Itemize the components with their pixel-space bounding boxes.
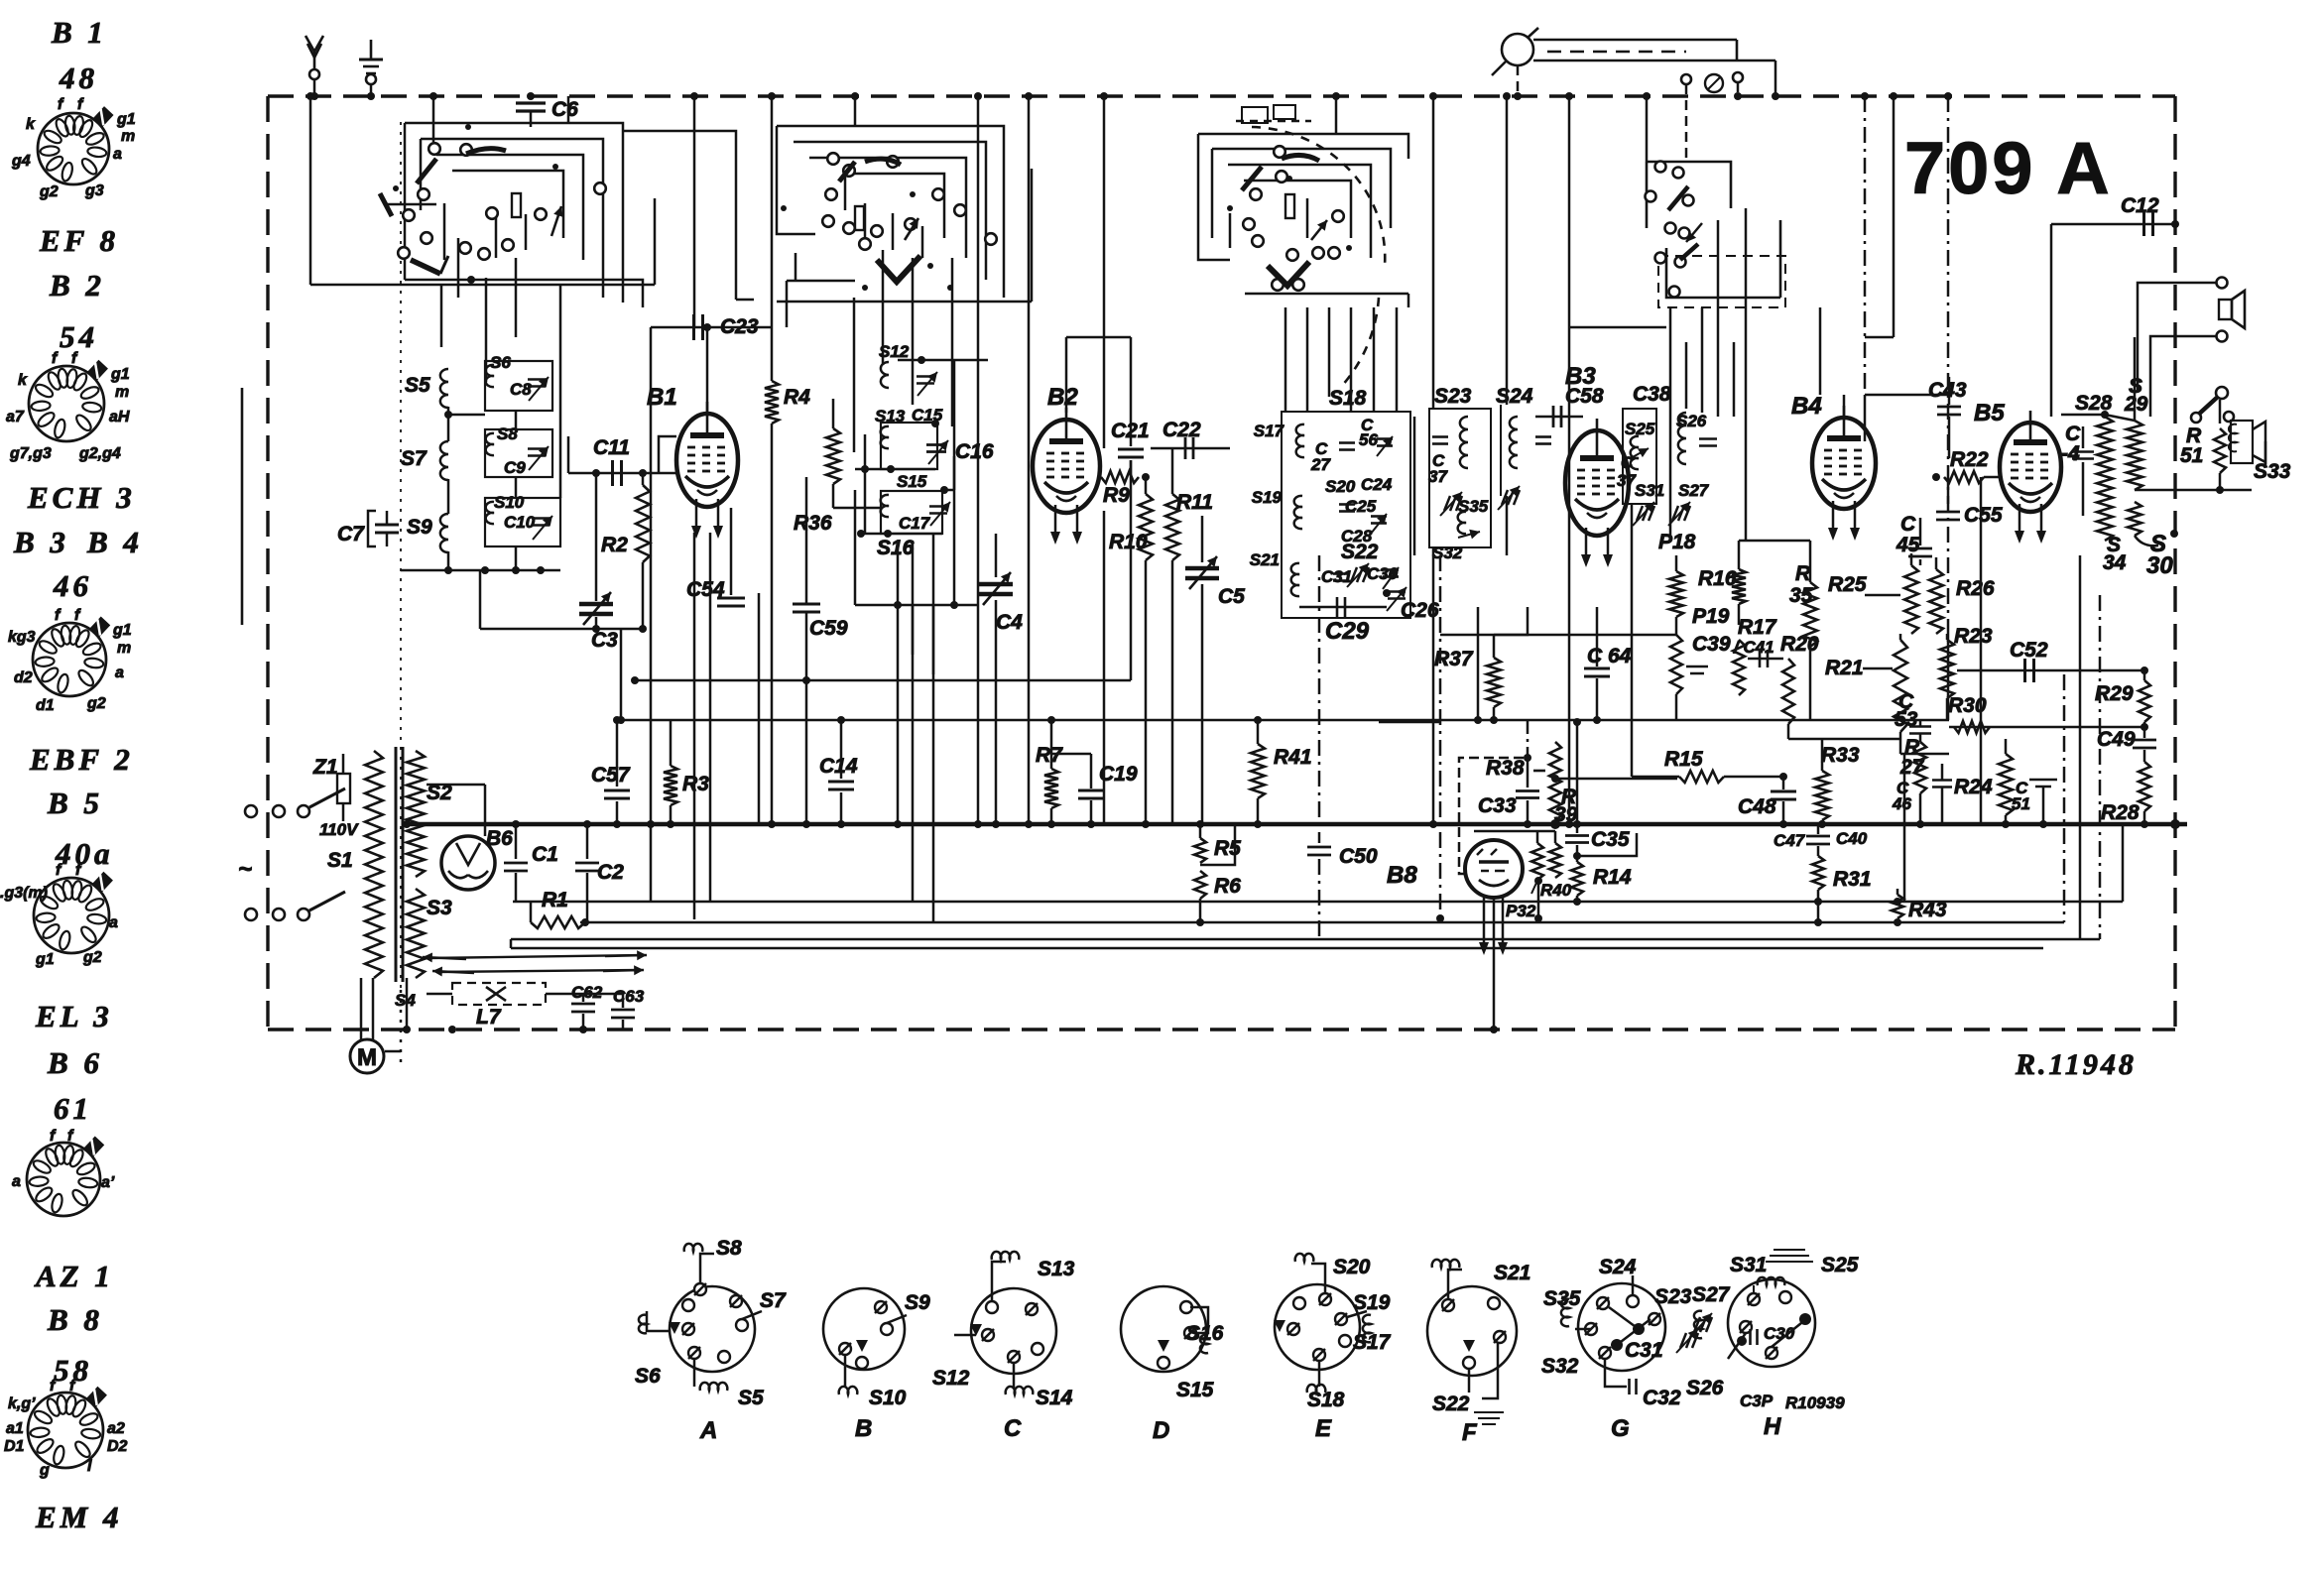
resistor R39 — [1549, 742, 1561, 821]
svg-text:g3: g3 — [84, 182, 104, 199]
svg-text:R1: R1 — [542, 889, 568, 911]
svg-text:EM 4: EM 4 — [35, 1500, 123, 1534]
socket detail C — [971, 1288, 1056, 1374]
capacitor C2 — [586, 824, 589, 859]
antenna — [313, 52, 316, 70]
svg-text:B 1: B 1 — [51, 15, 107, 50]
wave switch unit 1 — [432, 96, 435, 142]
svg-text:S6: S6 — [635, 1365, 661, 1388]
svg-text:C2: C2 — [597, 861, 624, 884]
svg-text:S23: S23 — [1434, 385, 1472, 408]
socket detail F — [1427, 1286, 1517, 1376]
capacitor C11 — [611, 460, 614, 486]
socket detail A — [670, 1286, 755, 1372]
svg-text:aH: aH — [109, 409, 130, 425]
svg-text:m: m — [117, 640, 131, 657]
long wires 947/956 — [511, 938, 2100, 941]
svg-text:C62: C62 — [571, 983, 603, 1002]
svg-text:~: ~ — [238, 856, 252, 883]
svg-text:C10: C10 — [504, 513, 536, 532]
svg-text:C54: C54 — [686, 578, 725, 601]
misc verticals — [897, 635, 900, 824]
svg-text:C24: C24 — [1361, 475, 1393, 494]
capacitor C21 — [1130, 417, 1133, 446]
resistor R26v — [1929, 569, 1943, 634]
coil S10 with C10 — [485, 498, 560, 546]
svg-text:A: A — [699, 1417, 717, 1444]
svg-text:m: m — [115, 384, 129, 401]
svg-text:S16: S16 — [877, 537, 915, 559]
coil S25 — [1623, 409, 1656, 504]
svg-text:C5: C5 — [1218, 585, 1245, 608]
svg-text:D1: D1 — [4, 1438, 25, 1455]
socket detail G — [1578, 1283, 1665, 1371]
HT bus — [407, 822, 2187, 827]
svg-text:C6: C6 — [551, 98, 578, 121]
svg-text:S32: S32 — [1541, 1355, 1579, 1378]
resistor R41 — [1257, 720, 1260, 744]
long wire 930 — [580, 921, 2064, 924]
socket B8 — [28, 1393, 103, 1468]
coil S13 C15 — [881, 423, 937, 469]
extra interconnect density — [635, 679, 1131, 682]
svg-text:R38: R38 — [1486, 757, 1525, 780]
svg-text:B6: B6 — [486, 827, 513, 850]
svg-text:S25: S25 — [1625, 420, 1655, 438]
svg-text:B: B — [855, 1415, 872, 1442]
svg-text:S18: S18 — [1307, 1389, 1345, 1411]
svg-text:R: R — [1795, 562, 1811, 585]
svg-text:C: C — [1004, 1415, 1022, 1442]
svg-text:P32: P32 — [1506, 902, 1536, 920]
svg-text:110V: 110V — [319, 820, 359, 839]
svg-text:d1: d1 — [36, 697, 55, 714]
svg-text:C21: C21 — [1111, 420, 1150, 442]
dial drive — [1502, 34, 1533, 65]
heptode B2 — [1033, 420, 1100, 513]
coil S5 — [440, 369, 448, 408]
variable capacitor C3 — [595, 473, 598, 601]
variable capacitor C5 — [1201, 516, 1204, 562]
wire to C3 — [479, 570, 482, 629]
svg-text:S24: S24 — [1599, 1256, 1637, 1278]
svg-text:C3: C3 — [591, 629, 618, 652]
variable capacitor C26 — [1388, 590, 1406, 593]
svg-text:B 6: B 6 — [47, 1045, 103, 1080]
svg-text:P19: P19 — [1692, 605, 1730, 628]
svg-text:R40: R40 — [1540, 881, 1572, 900]
svg-text:S4: S4 — [395, 991, 416, 1010]
svg-text:R3: R3 — [682, 773, 709, 795]
wave switch unit 4 — [1647, 162, 1731, 208]
svg-text:S1: S1 — [327, 849, 353, 872]
svg-text:C7: C7 — [337, 523, 365, 546]
variable capacitor C4 — [995, 534, 998, 577]
phones jack — [2217, 278, 2228, 289]
svg-text:S17: S17 — [1254, 422, 1285, 440]
svg-text:g2: g2 — [86, 695, 106, 712]
svg-text:C16: C16 — [955, 440, 994, 463]
svg-text:C29: C29 — [1325, 618, 1370, 645]
svg-text:Z1: Z1 — [312, 756, 338, 779]
svg-text:R7: R7 — [1036, 744, 1063, 767]
svg-text:51: 51 — [2180, 444, 2203, 467]
svg-text:S22: S22 — [1432, 1393, 1470, 1415]
svg-text:C39: C39 — [1692, 633, 1731, 656]
capacitor C19 — [1090, 754, 1093, 788]
svg-text:S16: S16 — [1186, 1322, 1224, 1345]
svg-text:S20: S20 — [1325, 477, 1356, 496]
coil S9 — [440, 514, 448, 552]
IF can S17..S22 — [1282, 412, 1410, 618]
svg-text:C55: C55 — [1964, 504, 2003, 527]
switch S? top — [2196, 396, 2219, 417]
svg-text:S7: S7 — [760, 1289, 787, 1312]
svg-text:-4: -4 — [2061, 442, 2080, 465]
motor M — [350, 1039, 384, 1073]
svg-text:g4: g4 — [11, 153, 31, 170]
coil S7 — [440, 441, 448, 480]
capacitor C6 — [530, 96, 533, 99]
svg-text:S13: S13 — [875, 407, 906, 425]
svg-text:B4: B4 — [1791, 393, 1822, 420]
svg-text:C40: C40 — [1836, 829, 1868, 848]
svg-text:a: a — [12, 1173, 21, 1190]
svg-text:R22: R22 — [1950, 448, 1989, 471]
svg-text:54: 54 — [60, 319, 98, 354]
wiring near B4 — [1843, 395, 1846, 418]
capacitor C1 — [515, 824, 518, 859]
svg-text:S28: S28 — [2075, 392, 2113, 415]
socket B2 — [29, 366, 104, 441]
resistors R5 R6 — [1199, 824, 1202, 838]
svg-text:C31: C31 — [1321, 567, 1352, 586]
capacitor C57 — [616, 720, 619, 787]
resistor R4 — [771, 96, 774, 381]
svg-text:a: a — [109, 914, 118, 931]
svg-text:S21: S21 — [1250, 550, 1280, 569]
svg-text:C57: C57 — [591, 764, 631, 787]
S35 variable — [1444, 496, 1450, 511]
svg-text:S17: S17 — [1353, 1331, 1392, 1354]
chassis dashed border — [268, 94, 2175, 97]
svg-text:R33: R33 — [1821, 744, 1860, 767]
svg-text:EL 3: EL 3 — [35, 999, 113, 1033]
svg-text:EF 8: EF 8 — [39, 223, 119, 258]
svg-text:B 4: B 4 — [86, 525, 143, 559]
svg-text:S18: S18 — [1329, 387, 1367, 410]
svg-text:R14: R14 — [1593, 866, 1632, 889]
svg-text:S15: S15 — [897, 472, 927, 491]
svg-text:C49: C49 — [2097, 728, 2136, 751]
svg-text:S20: S20 — [1333, 1256, 1371, 1278]
svg-text:C38: C38 — [1633, 383, 1671, 406]
svg-text:H: H — [1764, 1413, 1781, 1440]
wave switch unit 2 — [777, 126, 1004, 298]
variable capacitor C16 — [926, 443, 946, 446]
svg-text:34: 34 — [2103, 551, 2127, 574]
svg-text:a: a — [115, 665, 124, 681]
transformer S1 — [365, 751, 383, 978]
capacitor C29 — [1336, 597, 1339, 617]
svg-text:S31: S31 — [1635, 481, 1664, 500]
svg-text:46: 46 — [1892, 794, 1911, 813]
svg-text:S5: S5 — [405, 374, 430, 397]
svg-text:.g3(m): .g3(m) — [0, 885, 48, 902]
svg-text:S14: S14 — [1036, 1387, 1073, 1409]
svg-text:m: m — [121, 128, 135, 145]
speaker S33 — [2231, 421, 2253, 463]
svg-text:S32: S32 — [1432, 544, 1463, 562]
svg-text:ECH 3: ECH 3 — [27, 480, 136, 515]
dashdot drop C50 — [1318, 555, 1321, 843]
svg-text:D2: D2 — [107, 1438, 128, 1455]
svg-text:B2: B2 — [1047, 384, 1078, 411]
tube B4 — [1812, 418, 1876, 509]
svg-text:a’: a’ — [101, 1174, 115, 1191]
svg-text:C17: C17 — [899, 514, 931, 533]
capacitor C59 — [805, 477, 808, 603]
svg-text:C9: C9 — [504, 458, 526, 477]
svg-text:S12: S12 — [932, 1367, 970, 1390]
svg-text:EBF 2: EBF 2 — [29, 742, 134, 777]
svg-text:R2: R2 — [601, 534, 628, 556]
svg-text:a7: a7 — [6, 409, 25, 425]
svg-text:P18: P18 — [1658, 531, 1696, 553]
coil S32 — [1458, 512, 1466, 534]
svg-text:C33: C33 — [1478, 794, 1517, 817]
svg-text:g2: g2 — [82, 949, 102, 966]
svg-text:R41: R41 — [1274, 746, 1312, 769]
drops from top border — [693, 96, 696, 327]
svg-text:R4: R4 — [784, 386, 810, 409]
svg-text:B5: B5 — [1974, 400, 2005, 426]
svg-text:a1: a1 — [6, 1420, 24, 1437]
svg-text:R10939: R10939 — [1785, 1394, 1845, 1412]
svg-text:B 5: B 5 — [47, 786, 103, 820]
svg-text:S33: S33 — [2254, 460, 2291, 483]
coil S8 with C9 — [485, 429, 552, 477]
svg-text:R24: R24 — [1954, 776, 1993, 798]
svg-text:D: D — [1153, 1417, 1169, 1444]
resistor R2 — [642, 473, 645, 485]
svg-text:S10: S10 — [494, 493, 525, 512]
long wire 909 — [513, 901, 2123, 904]
svg-text:k,g’: k,g’ — [8, 1395, 36, 1412]
coil S23 C37 — [1429, 409, 1491, 547]
resistor R37 — [1493, 635, 1496, 658]
svg-text:S19: S19 — [1353, 1291, 1391, 1314]
resistors R40 — [1531, 843, 1543, 880]
svg-text:C: C — [1621, 453, 1634, 472]
mains terminals — [245, 805, 257, 817]
svg-text:S31: S31 — [1730, 1254, 1767, 1276]
socket detail D — [1121, 1286, 1206, 1372]
dash-dot vertical — [1864, 96, 1867, 395]
socket B1 — [38, 113, 109, 184]
speaker symbol — [2219, 300, 2232, 319]
svg-text:C22: C22 — [1162, 419, 1201, 441]
resistor R7 — [1050, 720, 1053, 769]
svg-text:56: 56 — [1359, 430, 1378, 449]
svg-text:S6: S6 — [490, 353, 511, 372]
socket detail H — [1728, 1279, 1815, 1367]
svg-text:C35: C35 — [1591, 828, 1630, 851]
svg-text:C: C — [1900, 513, 1916, 536]
svg-text:R6: R6 — [1214, 875, 1241, 898]
capacitor C14 — [840, 720, 843, 779]
svg-text:S7: S7 — [401, 447, 428, 470]
L7 filter — [452, 983, 546, 1005]
socket B3B4 — [33, 623, 106, 696]
coil bank bottom rail — [401, 569, 560, 572]
svg-text:C63: C63 — [613, 987, 645, 1006]
svg-text:M: M — [357, 1044, 377, 1071]
socket detail B — [823, 1288, 905, 1370]
svg-text:C1: C1 — [532, 843, 558, 866]
svg-text:R28: R28 — [2101, 801, 2140, 824]
svg-text:g2,g4: g2,g4 — [78, 445, 121, 462]
svg-text:29: 29 — [2124, 393, 2148, 416]
svg-text:g1: g1 — [112, 622, 132, 639]
capacitor C54 — [730, 508, 733, 595]
pickup leads — [428, 955, 643, 958]
svg-text:C47: C47 — [1774, 831, 1806, 850]
svg-text:C23: C23 — [720, 315, 759, 338]
svg-text:51: 51 — [2012, 794, 2030, 813]
svg-text:R9: R9 — [1103, 484, 1130, 507]
svg-text:S22: S22 — [1341, 541, 1379, 563]
svg-text:S24: S24 — [1496, 385, 1533, 408]
wave switch unit 3 — [1198, 134, 1408, 159]
svg-text:B 2: B 2 — [49, 268, 105, 303]
svg-text:C52: C52 — [2010, 639, 2048, 662]
svg-text:C58: C58 — [1565, 385, 1604, 408]
svg-text:l: l — [87, 1458, 92, 1475]
rectifier B6 — [441, 836, 495, 890]
svg-text:S8: S8 — [716, 1237, 742, 1260]
svg-text:kg3: kg3 — [8, 629, 36, 646]
svg-text:R5: R5 — [1214, 837, 1241, 860]
svg-text:g2: g2 — [39, 183, 59, 200]
svg-text:S21: S21 — [1494, 1262, 1530, 1284]
svg-text:B 3: B 3 — [13, 525, 69, 559]
capacitor C22 — [1151, 447, 1230, 450]
tube B3 — [1565, 430, 1629, 536]
svg-text:k: k — [26, 116, 36, 133]
resistor R11 — [1171, 448, 1174, 494]
svg-text:S9: S9 — [905, 1291, 930, 1314]
svg-text:R25: R25 — [1828, 573, 1867, 596]
svg-text:C50: C50 — [1339, 845, 1378, 868]
svg-text:R10: R10 — [1109, 531, 1148, 553]
socket B5 — [34, 878, 109, 953]
socket B6 — [27, 1143, 100, 1216]
svg-text:S9: S9 — [407, 516, 432, 539]
svg-text:C8: C8 — [510, 380, 532, 399]
svg-text:R11: R11 — [1176, 491, 1213, 514]
resistor R10 — [1145, 477, 1148, 494]
svg-text:E: E — [1315, 1415, 1332, 1442]
svg-text:709 A: 709 A — [1904, 127, 2113, 209]
svg-text:S15: S15 — [1176, 1379, 1214, 1401]
svg-text:g7,g3: g7,g3 — [9, 445, 52, 462]
coil S6 with C8 — [485, 361, 552, 411]
svg-text:C 64: C 64 — [1587, 645, 1632, 667]
capacitor C55 — [1947, 477, 1950, 504]
svg-text:R.11948: R.11948 — [2015, 1048, 2137, 1081]
svg-text:S19: S19 — [1252, 488, 1283, 507]
resistor R23v — [1940, 640, 1954, 698]
resistor R3 — [670, 720, 673, 766]
svg-text:C31: C31 — [1625, 1339, 1663, 1362]
svg-text:48: 48 — [59, 61, 98, 95]
svg-text:R21: R21 — [1825, 657, 1864, 679]
resistor R9 — [1101, 471, 1139, 483]
svg-text:40a: 40a — [55, 836, 114, 871]
svg-text:g1: g1 — [116, 111, 136, 128]
triode B1 — [676, 414, 738, 507]
svg-text:S10: S10 — [869, 1387, 907, 1409]
svg-text:S27: S27 — [1678, 481, 1710, 500]
resistor R36 — [832, 399, 835, 428]
svg-text:R16: R16 — [1698, 567, 1737, 590]
svg-text:R23: R23 — [1954, 625, 1993, 648]
svg-text:AZ 1: AZ 1 — [34, 1259, 114, 1293]
tuning eye B8 — [1465, 840, 1523, 898]
svg-text:R31: R31 — [1833, 868, 1872, 891]
svg-text:R17: R17 — [1738, 616, 1777, 639]
fold mark line — [241, 388, 244, 625]
capacitor C23 — [651, 326, 772, 329]
svg-text:B 8: B 8 — [47, 1302, 103, 1337]
svg-text:C3P: C3P — [1740, 1392, 1774, 1410]
svg-text:37: 37 — [1428, 467, 1448, 486]
svg-text:G: G — [1611, 1415, 1630, 1442]
resistor R14 — [1571, 862, 1583, 896]
svg-text:S26: S26 — [1686, 1377, 1724, 1399]
svg-text:27: 27 — [1310, 455, 1331, 474]
svg-text:g1: g1 — [35, 951, 55, 968]
svg-text:45: 45 — [1896, 534, 1920, 556]
svg-text:R26: R26 — [1956, 577, 1995, 600]
svg-text:S13: S13 — [1038, 1258, 1075, 1280]
svg-text:a: a — [113, 146, 122, 163]
svg-text:S5: S5 — [738, 1387, 764, 1409]
svg-text:S25: S25 — [1821, 1254, 1859, 1276]
svg-text:S27: S27 — [1692, 1283, 1731, 1306]
svg-text:61: 61 — [54, 1091, 92, 1126]
chassis dotted line — [400, 122, 402, 990]
tube B5 — [2000, 423, 2061, 512]
svg-text:S23: S23 — [1654, 1285, 1692, 1308]
svg-text:C11: C11 — [593, 436, 630, 459]
svg-text:C32: C32 — [1643, 1387, 1681, 1409]
svg-text:C25: C25 — [1345, 497, 1377, 516]
svg-text:g: g — [39, 1462, 50, 1479]
svg-text:46: 46 — [53, 568, 92, 603]
svg-text:S3: S3 — [427, 897, 452, 919]
svg-text:F: F — [1462, 1419, 1478, 1446]
svg-text:C4: C4 — [996, 611, 1023, 634]
svg-text:a2: a2 — [107, 1420, 125, 1437]
svg-text:d2: d2 — [14, 669, 33, 686]
socket detail E — [1275, 1284, 1360, 1370]
earth — [370, 40, 373, 60]
svg-text:k: k — [18, 372, 28, 389]
svg-text:L7: L7 — [476, 1006, 502, 1029]
svg-text:g1: g1 — [110, 366, 130, 383]
